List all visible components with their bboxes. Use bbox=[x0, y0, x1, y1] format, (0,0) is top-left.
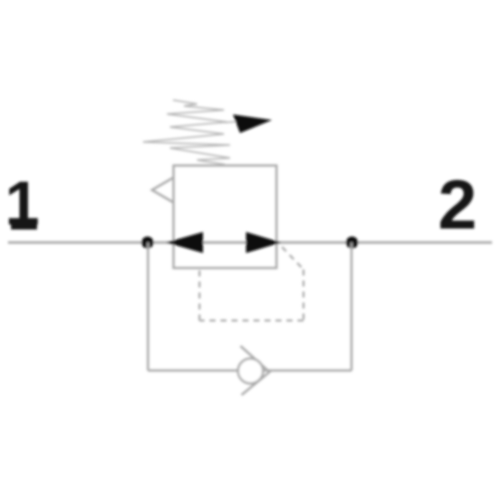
node: junction dot right bbox=[346, 237, 358, 249]
adjustment arrow shaft bbox=[225, 122, 238, 123]
check valve ball circle bbox=[238, 359, 263, 384]
arrow left (flow arrowhead pointing left) bbox=[166, 232, 203, 253]
svg-text:2: 2 bbox=[438, 166, 477, 244]
wire: bypass bottom horizontal bbox=[148, 369, 352, 371]
vent triangle (relieving port, open) bbox=[152, 178, 174, 203]
port label 1 foot serif bbox=[11, 224, 37, 230]
pilot line dashed: bottom horizontal bbox=[200, 320, 304, 322]
spring (adjustable, zigzag) bbox=[143, 100, 230, 165]
pilot line dashed: right vertical bbox=[303, 270, 305, 321]
adjustment arrow head bbox=[233, 115, 272, 134]
pilot line dashed: diagonal from output bbox=[282, 247, 304, 270]
node: junction dot left bbox=[142, 237, 154, 249]
pilot line dashed: left vertical bbox=[199, 269, 201, 321]
wire: bypass right vertical bbox=[350, 243, 352, 371]
wire: bypass left vertical bbox=[147, 243, 149, 371]
arrow right (flow arrowhead pointing right) bbox=[246, 232, 281, 253]
wire: main flow line port1 to port2 bbox=[8, 241, 492, 243]
regulator body box bbox=[174, 166, 277, 269]
check valve seat chevron bbox=[241, 346, 270, 395]
